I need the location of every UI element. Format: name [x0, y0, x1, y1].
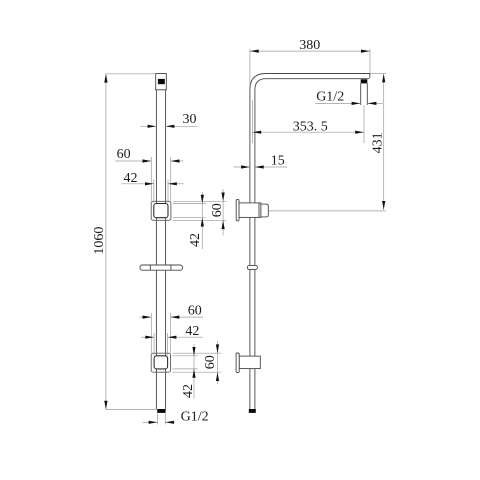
dimension 60 upper vertical	[222, 189, 224, 236]
svg-text:60: 60	[188, 304, 202, 319]
dimension 15	[234, 166, 250, 168]
svg-text:15: 15	[271, 154, 285, 169]
dimension 42 lower horizontal	[141, 336, 154, 338]
svg-text:42: 42	[188, 233, 203, 247]
svg-text:60: 60	[210, 203, 225, 217]
top cap of rail	[156, 74, 167, 90]
svg-text:42: 42	[181, 384, 196, 398]
dimension 431	[383, 74, 385, 210]
dimension 60 lower vertical	[217, 341, 219, 384]
top outlet stub G1/2	[361, 79, 368, 83]
svg-text:353. 5: 353. 5	[293, 120, 328, 135]
bracket B2 lower left holder	[154, 356, 168, 369]
svg-text:30: 30	[183, 112, 197, 127]
bracket B3 upper right on pipe	[239, 203, 259, 218]
dimension 1060	[105, 74, 107, 410]
dimension 30	[140, 125, 156, 127]
dimension 42 upper vertical	[201, 192, 203, 249]
right pipe bottom cap (black)	[249, 409, 256, 413]
svg-text:1060: 1060	[92, 227, 107, 255]
dimension 60 upper horizontal	[115, 160, 151, 162]
wire right pipe inner edge	[255, 79, 369, 409]
dimension 42 lower vertical	[193, 344, 195, 399]
bracket B4 lower right on pipe	[239, 356, 260, 369]
dimension 60 lower horizontal	[139, 316, 151, 318]
dimension 380	[250, 50, 370, 52]
extension lines lower bracket	[173, 352, 222, 354]
dimension G1/2 top	[315, 102, 360, 104]
bracket B1 upper left holder	[154, 204, 168, 218]
svg-text:G1/2: G1/2	[181, 410, 209, 425]
svg-text:G1/2: G1/2	[316, 90, 344, 105]
svg-text:42: 42	[124, 171, 138, 186]
dimension G1/2 bottom	[143, 421, 158, 423]
svg-text:60: 60	[203, 355, 218, 369]
dimension 353.5	[252, 131, 364, 133]
svg-text:431: 431	[370, 132, 385, 153]
wire rail left edge	[155, 90, 157, 409]
bottom outlet cap (black)	[157, 409, 165, 413]
dimension 42 upper horizontal	[122, 183, 154, 185]
wire right pipe outer edge with elbow	[250, 74, 370, 410]
pipe ring connector	[247, 265, 257, 269]
svg-text:42: 42	[185, 324, 199, 339]
svg-text:380: 380	[299, 38, 320, 53]
wire rail right edge	[165, 90, 167, 409]
soap dish	[140, 265, 183, 270]
extension lines upper bracket	[173, 200, 227, 202]
svg-text:60: 60	[117, 147, 131, 162]
